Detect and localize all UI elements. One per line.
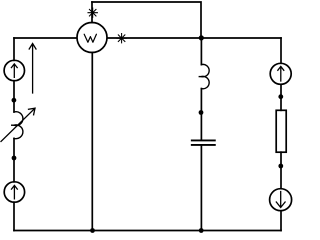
node dot <box>278 94 283 99</box>
wire right branch top <box>280 38 282 63</box>
wire wattmeter left terminal <box>14 37 77 39</box>
wire wattmeter top terminal <box>91 2 93 23</box>
node dot <box>12 98 17 103</box>
wire wattmeter right terminal <box>107 37 281 39</box>
wire node A down to inductor L2 <box>200 38 202 65</box>
asterisk polarity mark (voltage terminal) <box>88 8 97 17</box>
current source I2 (up arrow) <box>4 182 24 202</box>
wire I1 to inductor <box>13 81 15 112</box>
wire top: wattmeter voltage coil to node A <box>92 2 201 38</box>
node dot (capacitor branch at bottom rail) <box>199 228 204 233</box>
inductor L2 <box>199 64 209 88</box>
wire I2 to bottom rail <box>13 202 15 230</box>
node dot <box>12 156 17 161</box>
wire inductor to I2 <box>13 138 15 181</box>
current source I4 (down arrow) <box>270 189 292 211</box>
wire bottom rail <box>14 230 281 232</box>
variable inductor L1 <box>1 108 35 141</box>
current source I1 (up arrow) <box>4 60 24 80</box>
wire I3 to R1 <box>280 84 282 110</box>
wire I4 to bottom rail <box>280 211 282 231</box>
capacitor C1 <box>192 140 215 145</box>
wire C1 to bottom rail <box>200 146 202 231</box>
asterisk polarity mark (current terminal) <box>117 34 126 43</box>
node dot between L2 and C1 <box>199 110 204 115</box>
wire L2 to capacitor <box>200 89 202 140</box>
node dot <box>278 164 283 169</box>
node dot (wattmeter branch at bottom rail) <box>90 228 95 233</box>
resistor R1 <box>276 110 286 152</box>
wire wattmeter bottom terminal down to bottom rail <box>91 53 93 231</box>
wire left branch top <box>13 38 15 60</box>
op wattmeter W1 <box>77 23 107 53</box>
node A junction dot <box>199 35 204 40</box>
arrow current annotation (long up arrow) <box>29 44 36 94</box>
wire R1 to I4 <box>280 152 282 188</box>
current source I3 (up arrow) <box>270 63 291 84</box>
